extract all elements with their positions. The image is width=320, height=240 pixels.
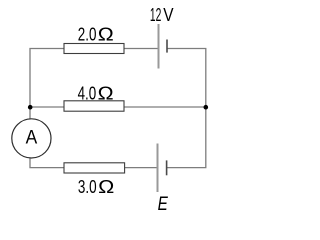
svg-text:A: A — [26, 126, 38, 148]
svg-text:Ω: Ω — [98, 83, 114, 104]
svg-text:V: V — [163, 4, 174, 25]
svg-text:Ω: Ω — [98, 176, 114, 197]
svg-text:Ω: Ω — [98, 23, 114, 44]
svg-text:3.0: 3.0 — [78, 176, 97, 197]
svg-text:2.0: 2.0 — [78, 23, 97, 44]
svg-text:12: 12 — [150, 4, 161, 25]
svg-text:E: E — [158, 194, 169, 213]
svg-text:4.0: 4.0 — [78, 83, 97, 104]
